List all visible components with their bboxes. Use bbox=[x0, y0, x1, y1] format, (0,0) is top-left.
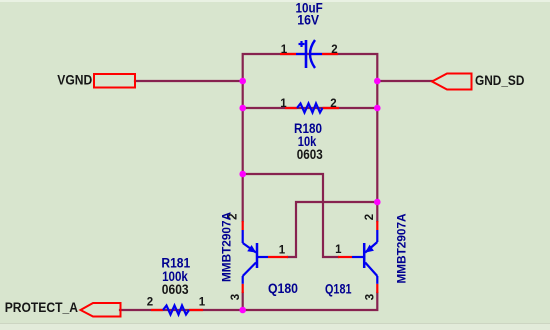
svg-text:0603: 0603 bbox=[162, 282, 189, 297]
port GND_SD bbox=[432, 73, 525, 90]
zigzag bbox=[297, 104, 323, 113]
svg-text:2: 2 bbox=[147, 297, 153, 309]
svg-text:MMBT2907A: MMBT2907A bbox=[220, 212, 234, 282]
junction node right rail/GND_SD bbox=[374, 78, 381, 85]
svg-text:Q180: Q180 bbox=[268, 281, 298, 296]
plus sign bbox=[299, 43, 305, 45]
pin 2 lead bbox=[322, 53, 338, 55]
svg-text:2: 2 bbox=[330, 98, 336, 110]
port PROTECT_A bbox=[5, 300, 121, 317]
wire Q180 collector stub bbox=[242, 293, 244, 310]
wire right rail to GND_SD bbox=[377, 80, 432, 82]
svg-text:0603: 0603 bbox=[297, 147, 323, 162]
pin 1 lead bbox=[189, 309, 203, 311]
emitter arrow bbox=[365, 245, 374, 253]
pin 1 lead (base) bbox=[338, 256, 352, 258]
svg-text:GND_SD: GND_SD bbox=[475, 73, 525, 88]
wire cross-couple A (left rail to Q181 base) bbox=[243, 174, 338, 257]
svg-text:3: 3 bbox=[364, 294, 376, 300]
svg-text:2: 2 bbox=[364, 214, 376, 220]
pin 1 lead bbox=[280, 53, 296, 55]
svg-text:PROTECT_A: PROTECT_A bbox=[5, 300, 79, 315]
port VGND bbox=[57, 73, 135, 88]
junction node VGND/left rail bbox=[239, 78, 246, 85]
wire top loop with left and right rails bbox=[243, 54, 378, 221]
emitter arrow bbox=[247, 245, 256, 253]
resistor R181 100k 0603 bbox=[147, 255, 206, 314]
transistor Q180 MMBT2907A (PNP) bbox=[220, 212, 299, 301]
capacitor C 10uF 16V bbox=[280, 1, 338, 68]
pin 3 lead (collector) bbox=[376, 284, 378, 293]
transistor Q181 MMBT2907A (PNP) bbox=[325, 213, 409, 300]
svg-text:1: 1 bbox=[280, 98, 287, 110]
pin 2 lead bbox=[323, 107, 340, 109]
svg-text:1: 1 bbox=[279, 245, 286, 257]
svg-text:1: 1 bbox=[281, 44, 288, 56]
svg-text:MMBT2907A: MMBT2907A bbox=[395, 213, 409, 283]
junction node right rail/cross B bbox=[374, 199, 381, 206]
zigzag bbox=[163, 306, 189, 315]
wire R180 row bbox=[243, 107, 378, 109]
svg-text:Q181: Q181 bbox=[325, 282, 352, 297]
pin 2 lead (emitter) bbox=[376, 221, 378, 230]
svg-text:VGND: VGND bbox=[57, 73, 92, 88]
pin 2 lead (emitter) bbox=[242, 221, 244, 230]
junction node left rail/cross A bbox=[239, 171, 246, 178]
pin 2 lead bbox=[151, 309, 163, 311]
svg-text:2: 2 bbox=[331, 44, 337, 56]
junction node right rail/R180 bbox=[374, 105, 381, 112]
resistor R180 10k 0603 bbox=[280, 98, 339, 162]
svg-text:3: 3 bbox=[230, 294, 242, 300]
pin 1 lead (base) bbox=[268, 256, 288, 258]
svg-text:1: 1 bbox=[199, 297, 206, 309]
wire VGND to left rail bbox=[135, 80, 243, 82]
junction node bottom row/Q180 collector bbox=[239, 307, 246, 314]
svg-text:16V: 16V bbox=[297, 13, 319, 28]
pin 3 lead (collector) bbox=[242, 284, 244, 293]
junction node left rail/R180 bbox=[239, 105, 246, 112]
svg-text:1: 1 bbox=[335, 244, 342, 256]
wire bottom row bbox=[120, 293, 377, 310]
pin 1 lead bbox=[285, 107, 297, 109]
wire cross-couple B (Q180 base to right rail) bbox=[288, 202, 377, 257]
